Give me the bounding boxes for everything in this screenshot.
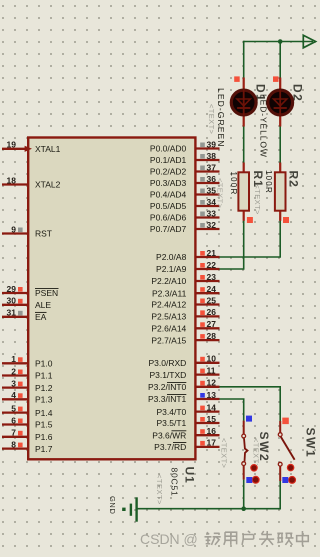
svg-text:12: 12: [207, 378, 217, 388]
ground symbol: [122, 497, 136, 521]
svg-text:13: 13: [207, 390, 217, 400]
wire: SW1 bottom to ground rail: [279, 481, 281, 509]
svg-text:P2.1/A9: P2.1/A9: [156, 264, 187, 274]
svg-text:P2.0/A8: P2.0/A8: [156, 252, 187, 262]
svg-text:P3.7/RD: P3.7/RD: [154, 442, 186, 452]
state square SW2 top (low): [246, 416, 252, 422]
svg-text:2: 2: [11, 366, 16, 376]
svg-text:SW1: SW1: [304, 428, 318, 459]
state square SW1 top (high): [282, 418, 289, 425]
svg-text:21: 21: [207, 248, 217, 258]
svg-text:P3.6/WR: P3.6/WR: [152, 430, 186, 440]
svg-text:P2.5/A13: P2.5/A13: [151, 312, 186, 322]
svg-text:28: 28: [207, 331, 217, 341]
svg-text:PSEN: PSEN: [35, 288, 58, 298]
svg-text:80C51: 80C51: [170, 468, 180, 497]
U1 pin 38 (P0.1/AD1): [150, 151, 220, 165]
svg-text:100R: 100R: [264, 170, 273, 194]
svg-text:38: 38: [207, 151, 217, 161]
state square near D1 anode: [234, 76, 240, 82]
U1 pin 18 (XTAL2): [2, 175, 61, 189]
svg-text:P0.1/AD1: P0.1/AD1: [150, 155, 187, 165]
U1 pin 11 (P3.1/TXD): [149, 365, 219, 379]
svg-text:RST: RST: [35, 229, 52, 239]
svg-text:<TEXT>: <TEXT>: [220, 438, 229, 469]
svg-text:33: 33: [207, 208, 217, 218]
U1 pin 31 (EA): [2, 308, 47, 322]
junction dot at top wire / D2 branch: [278, 39, 283, 44]
resistor R2 (100R): [275, 163, 286, 221]
svg-text:P1.4: P1.4: [35, 408, 53, 418]
svg-text:4: 4: [11, 390, 16, 400]
svg-text:U1: U1: [183, 467, 197, 484]
U1 pin 22 (P2.1/A9): [156, 260, 219, 274]
svg-text:P0.3/AD3: P0.3/AD3: [150, 178, 187, 188]
junction dot ground rail / SW2: [241, 506, 246, 511]
watermark glyph 户: [242, 531, 254, 545]
svg-text:10: 10: [207, 354, 217, 364]
wire: top wire down to D1 anode: [243, 41, 245, 79]
wire: pin 13 P3.3/INT1 horizontal to SW2 column: [219, 398, 244, 400]
svg-text:P0.2/AD2: P0.2/AD2: [150, 167, 187, 177]
switch SW2 (closed): [242, 421, 248, 480]
wire: ground rail horizontal: [137, 508, 282, 510]
svg-text:1: 1: [11, 354, 16, 364]
svg-text:37: 37: [207, 162, 217, 172]
U1 pin 16 (P3.6/WR): [152, 426, 219, 440]
U1 pin 39 (P0.0/AD0): [150, 139, 220, 153]
svg-text:P3.2/INT0: P3.2/INT0: [148, 382, 187, 392]
U1 pin 26 (P2.5/A13): [151, 307, 219, 321]
svg-text:8: 8: [11, 439, 16, 449]
U1 pin 35 (P0.4/AD4): [150, 185, 220, 199]
svg-text:P1.1: P1.1: [35, 371, 53, 381]
svg-text:9: 9: [11, 224, 16, 234]
svg-text:P2.4/A12: P2.4/A12: [151, 300, 186, 310]
U1 pin 36 (P0.3/AD3): [150, 174, 220, 188]
wire: R1 bottom down to P2.1 net: [243, 220, 245, 269]
svg-text:<TEXT>: <TEXT>: [253, 185, 262, 216]
watermark glyph 联: [277, 533, 293, 545]
svg-text:24: 24: [207, 284, 217, 294]
SW1 actuator dots: [287, 464, 295, 483]
U1 pin 4 (P1.3): [2, 390, 53, 404]
svg-text:25: 25: [207, 295, 217, 305]
svg-text:6: 6: [11, 415, 16, 425]
U1 pin 21 (P2.0/A8): [156, 248, 219, 262]
U1 pin 25 (P2.4/A12): [151, 295, 219, 309]
SW2 actuator dots: [251, 465, 259, 484]
watermark glyph 失: [259, 531, 274, 545]
svg-text:<TEXT>: <TEXT>: [207, 104, 216, 135]
svg-text:<TEXT>: <TEXT>: [155, 474, 164, 505]
watermark glyph 中: [297, 531, 309, 546]
state square near D2 anode: [273, 76, 279, 82]
svg-text:22: 22: [207, 260, 217, 270]
svg-text:P3.0/RXD: P3.0/RXD: [149, 358, 187, 368]
svg-text:14: 14: [207, 402, 217, 412]
wire: SW2 bottom to ground rail: [243, 480, 245, 509]
svg-text:32: 32: [207, 220, 217, 230]
wire state square below R2: [283, 217, 289, 223]
svg-text:34: 34: [207, 197, 217, 207]
svg-text:P1.5: P1.5: [35, 420, 53, 430]
svg-text:P1.3: P1.3: [35, 395, 53, 405]
op IC U1 80C51 body: [28, 138, 195, 460]
wire state square below R1: [247, 217, 253, 223]
U1 pin 33 (P0.6/AD6): [150, 208, 220, 222]
U1 pin 24 (P2.3/A11): [152, 284, 220, 298]
svg-text:P1.6: P1.6: [35, 432, 53, 442]
svg-text:7: 7: [11, 428, 16, 438]
wire: pin 13 net down to SW2: [243, 399, 245, 421]
wire: pin 12 net down to SW1: [279, 387, 281, 421]
state square SW1 bottom (low): [282, 477, 288, 483]
svg-text:35: 35: [207, 185, 217, 195]
U1 pin 2 (P1.1): [2, 366, 53, 380]
svg-text:15: 15: [207, 414, 217, 424]
svg-text:100R: 100R: [229, 172, 238, 196]
resistor R1 (100R): [238, 163, 249, 221]
svg-text:19: 19: [7, 140, 17, 150]
svg-text:11: 11: [207, 365, 216, 375]
switch SW1 (open): [278, 421, 294, 481]
U1 pin 9 (RST): [2, 224, 52, 238]
svg-text:P0.0/AD0: P0.0/AD0: [150, 144, 187, 154]
wire: junction down to D2 anode: [279, 42, 281, 79]
svg-text:39: 39: [207, 139, 217, 149]
U1 pin 19 (XTAL1): [2, 140, 61, 154]
svg-text:18: 18: [7, 175, 17, 185]
U1 pin 15 (P3.5/T1): [157, 414, 220, 428]
wire: D1 cathode to R1: [243, 125, 245, 163]
svg-text:SW2: SW2: [257, 432, 271, 463]
svg-text:27: 27: [207, 319, 217, 329]
svg-text:P2.3/A11: P2.3/A11: [152, 288, 187, 298]
svg-text:30: 30: [7, 296, 17, 306]
svg-text:31: 31: [7, 308, 17, 318]
LED D1 (LED-GREEN): [231, 78, 256, 127]
svg-text:P2.6/A14: P2.6/A14: [151, 324, 186, 334]
watermark glyph 用: [224, 532, 237, 545]
U1 pin 10 (P3.0/RXD): [149, 354, 220, 368]
svg-text:ALE: ALE: [35, 300, 51, 310]
U1 pin 37 (P0.2/AD2): [150, 162, 220, 176]
U1 pin 6 (P1.5): [2, 415, 53, 429]
svg-text:<TEXT>: <TEXT>: [216, 178, 225, 209]
svg-text:P2.7/A15: P2.7/A15: [151, 335, 186, 345]
svg-text:36: 36: [207, 174, 217, 184]
U1 pin 32 (P0.7/AD7): [150, 220, 220, 234]
svg-text:29: 29: [7, 284, 17, 294]
svg-text:XTAL2: XTAL2: [35, 180, 61, 190]
svg-text:R2: R2: [287, 171, 301, 188]
wire: VCC top horizontal: [244, 41, 313, 43]
LED D2 (LED-YELLOW): [268, 78, 293, 127]
wire: pin 21 P2.0/A8 horizontal to R2 column: [219, 256, 281, 258]
svg-text:LED-GREEN: LED-GREEN: [216, 88, 226, 148]
svg-text:GND: GND: [108, 496, 117, 514]
svg-text:P0.5/AD5: P0.5/AD5: [150, 201, 187, 211]
svg-text:P3.4/T0: P3.4/T0: [157, 407, 187, 417]
svg-text:P3.1/TXD: P3.1/TXD: [149, 370, 186, 380]
svg-text:16: 16: [207, 426, 217, 436]
U1 pin 7 (P1.6): [2, 428, 53, 442]
svg-text:P0.4/AD4: P0.4/AD4: [150, 190, 187, 200]
U1 pin 3 (P1.2): [2, 378, 53, 392]
U1 pin 17 (P3.7/RD): [154, 438, 219, 452]
svg-text:23: 23: [207, 272, 217, 282]
U1 pin 13 (P3.3/INT1): [148, 390, 219, 404]
svg-text:P1.7: P1.7: [35, 444, 53, 454]
svg-text:26: 26: [207, 307, 217, 317]
U1 pin 1 (P1.0): [2, 354, 53, 368]
svg-text:17: 17: [207, 438, 217, 448]
state square SW2 bottom (low): [246, 477, 252, 483]
svg-text:P1.2: P1.2: [35, 383, 53, 393]
svg-text:P0.6/AD6: P0.6/AD6: [150, 213, 187, 223]
wire: pin 22 P2.1/A9 horizontal to R1 column: [219, 268, 244, 270]
U1 pin 27 (P2.6/A14): [151, 319, 219, 333]
U1 pin 23 (P2.2/A10): [151, 272, 219, 286]
svg-text:XTAL1: XTAL1: [35, 144, 61, 154]
U1 pin 28 (P2.7/A15): [151, 331, 219, 345]
svg-text:P3.3/INT1: P3.3/INT1: [148, 394, 187, 404]
wire: D2 cathode to R2: [279, 125, 281, 163]
svg-text:P0.7/AD7: P0.7/AD7: [150, 224, 187, 234]
U1 pin 14 (P3.4/T0): [157, 402, 220, 416]
U1 pin 30 (ALE): [2, 296, 51, 310]
svg-text:P2.2/A10: P2.2/A10: [151, 276, 186, 286]
wire: pin 12 P3.2/INT0 horizontal to SW1 column: [219, 386, 281, 388]
watermark glyph 该: [205, 532, 221, 545]
U1 pin 29 (PSEN): [2, 284, 59, 298]
svg-text:CSDN @: CSDN @: [140, 531, 198, 547]
power arrow (right-pointing open triangle): [303, 35, 315, 48]
U1 pin 12 (P3.2/INT0): [148, 378, 219, 392]
svg-text:EA: EA: [35, 312, 47, 322]
U1 pin 8 (P1.7): [2, 439, 53, 453]
svg-text:3: 3: [11, 378, 16, 388]
wire: R2 bottom down to P2.0 net: [279, 220, 281, 257]
svg-text:P1.0: P1.0: [35, 359, 53, 369]
svg-text:P3.5/T1: P3.5/T1: [157, 418, 187, 428]
U1 pin 34 (P0.5/AD5): [150, 197, 220, 211]
svg-text:5: 5: [11, 403, 16, 413]
U1 pin 5 (P1.4): [2, 403, 53, 417]
